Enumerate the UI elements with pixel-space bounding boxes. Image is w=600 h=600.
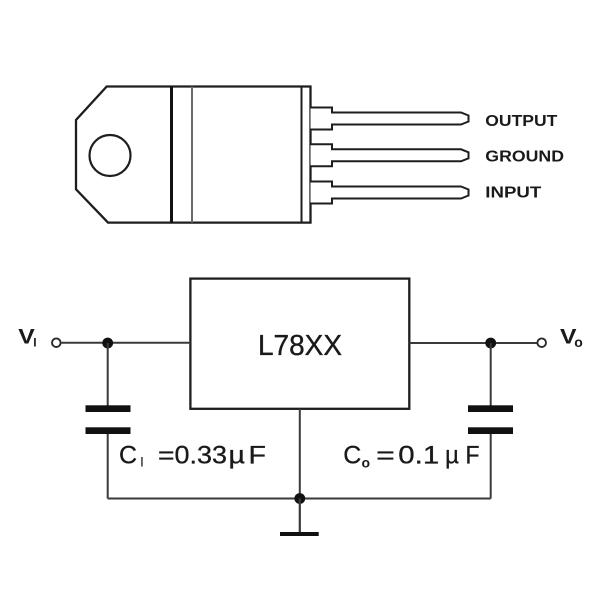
svg-text:µ: µ [445, 442, 459, 470]
svg-text:0.33: 0.33 [175, 442, 228, 470]
node output junction [485, 338, 496, 349]
lead 1 OUTPUT [311, 108, 469, 130]
wire C1 bottom [107, 434, 109, 499]
svg-text:C: C [119, 442, 137, 470]
regulator U1 box [190, 279, 409, 409]
package tab/body separator line [170, 87, 173, 223]
node ground junction [294, 493, 305, 504]
capacitor C0 [468, 405, 513, 412]
wire output [409, 342, 537, 344]
package lead-frame edge [301, 87, 303, 223]
svg-text:I: I [140, 454, 144, 470]
mounting hole [90, 135, 131, 176]
svg-text:µ: µ [229, 442, 246, 470]
wire bottom rail [108, 498, 491, 500]
svg-text:OUTPUT: OUTPUT [485, 113, 557, 130]
lead 2 GROUND [311, 144, 469, 166]
wire C1 top [107, 343, 109, 406]
package U1 TO-220 body outline [76, 87, 311, 223]
wire ground from box [299, 409, 301, 499]
node input junction [102, 338, 113, 349]
svg-text:F: F [466, 442, 480, 470]
lead 3 INPUT [311, 182, 469, 204]
wire C0 bottom [490, 434, 492, 499]
package body inner line [191, 87, 193, 223]
terminal VI [52, 338, 61, 347]
svg-text:o: o [574, 334, 583, 350]
capacitor C1 [86, 405, 131, 412]
svg-text:o: o [362, 455, 371, 471]
svg-text:0.1: 0.1 [398, 442, 439, 470]
svg-text:=: = [158, 442, 175, 470]
svg-text:GROUND: GROUND [485, 149, 564, 166]
svg-text:INPUT: INPUT [485, 185, 541, 202]
wire input [61, 342, 191, 344]
svg-text:=: = [376, 442, 395, 470]
ground symbol [299, 499, 301, 533]
terminal VO [537, 338, 546, 347]
svg-text:C: C [343, 442, 361, 470]
svg-text:L78XX: L78XX [258, 330, 342, 362]
svg-text:F: F [249, 442, 267, 470]
svg-text:I: I [33, 336, 36, 350]
wire C0 top [490, 343, 492, 406]
